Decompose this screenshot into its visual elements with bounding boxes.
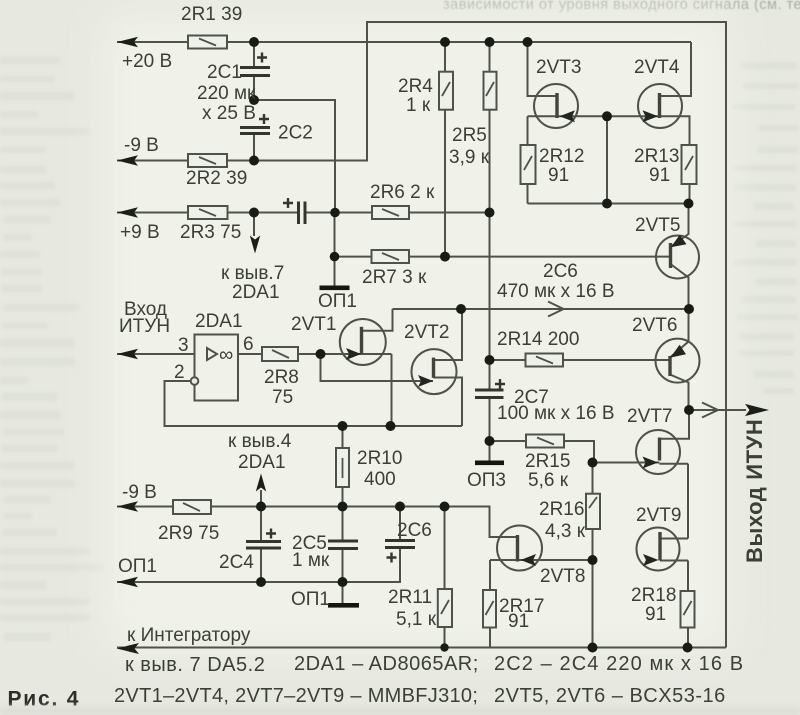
svg-text:2R1 39: 2R1 39 [181, 4, 242, 25]
svg-text:470 мк х 16 В: 470 мк х 16 В [497, 281, 615, 302]
svg-text:3,9 к: 3,9 к [449, 147, 490, 168]
svg-text:2VT4: 2VT4 [634, 57, 680, 78]
svg-text:4,3 к: 4,3 к [545, 521, 586, 542]
svg-text:ОП3: ОП3 [467, 470, 506, 491]
svg-text:2R8: 2R8 [264, 367, 299, 388]
svg-text:3: 3 [178, 335, 189, 356]
svg-text:100 мк х 16 В: 100 мк х 16 В [497, 403, 615, 424]
svg-text:5,1 к: 5,1 к [396, 609, 437, 630]
svg-text:х 25 В: х 25 В [202, 103, 256, 124]
svg-text:2R18: 2R18 [631, 585, 676, 606]
svg-text:2R9 75: 2R9 75 [158, 523, 219, 544]
svg-text:ОП1: ОП1 [291, 589, 330, 610]
svg-text:+20 В: +20 В [122, 51, 172, 72]
svg-text:2DA1: 2DA1 [232, 282, 280, 303]
svg-text:2VT1–2VT4, 2VT7–2VT9 – MMBFJ31: 2VT1–2VT4, 2VT7–2VT9 – MMBFJ310; [114, 685, 478, 707]
svg-text:2R15: 2R15 [525, 451, 570, 472]
svg-text:2VT5: 2VT5 [635, 215, 680, 236]
svg-text:2R5: 2R5 [452, 125, 487, 146]
svg-text:2DA1: 2DA1 [195, 311, 243, 332]
svg-text:400: 400 [364, 469, 396, 490]
svg-text:2VT2: 2VT2 [404, 322, 449, 343]
svg-text:2R14 200: 2R14 200 [497, 329, 579, 350]
svg-text:-9 В: -9 В [122, 482, 157, 503]
svg-text:ИТУН: ИТУН [119, 316, 170, 337]
svg-text:6: 6 [243, 334, 254, 355]
svg-text:2VT1: 2VT1 [291, 314, 336, 335]
svg-text:2R2 39: 2R2 39 [186, 168, 247, 189]
svg-text:2VT6: 2VT6 [632, 315, 677, 336]
svg-text:2R16: 2R16 [539, 499, 584, 520]
svg-text:91: 91 [645, 604, 666, 625]
svg-text:2VT9: 2VT9 [636, 505, 681, 526]
svg-text:2R6 2 к: 2R6 2 к [370, 182, 435, 203]
svg-text:91: 91 [508, 611, 529, 632]
svg-text:2VT3: 2VT3 [536, 57, 581, 78]
svg-text:2VT7: 2VT7 [627, 406, 672, 427]
svg-text:-9 В: -9 В [124, 135, 159, 156]
svg-text:2R13: 2R13 [634, 146, 679, 167]
svg-text:2DA1 – AD8065AR;: 2DA1 – AD8065AR; [294, 653, 479, 675]
svg-text:2C4: 2C4 [219, 552, 254, 573]
svg-text:к выв.4: к выв.4 [228, 431, 292, 452]
svg-text:1 мк: 1 мк [292, 550, 330, 571]
svg-text:1 к: 1 к [406, 95, 431, 116]
svg-text:2R3 75: 2R3 75 [180, 222, 241, 243]
svg-text:ОП1: ОП1 [318, 291, 357, 312]
svg-text:91: 91 [649, 165, 670, 186]
svg-text:2R4: 2R4 [398, 76, 433, 97]
svg-text:75: 75 [272, 387, 293, 408]
svg-text:2R7 3 к: 2R7 3 к [362, 267, 427, 288]
svg-text:2DA1: 2DA1 [238, 452, 286, 473]
svg-text:2C2 – 2C4 220 мк х 16 В: 2C2 – 2C4 220 мк х 16 В [494, 653, 744, 675]
svg-text:91: 91 [548, 165, 569, 186]
svg-text:2C1: 2C1 [207, 62, 242, 83]
svg-text:к выв. 7 DA5.2: к выв. 7 DA5.2 [125, 654, 265, 676]
svg-text:5,6 к: 5,6 к [528, 470, 569, 491]
svg-text:Выход ИТУН: Выход ИТУН [742, 419, 767, 563]
svg-text:к выв.7: к выв.7 [221, 263, 284, 284]
svg-text:ОП1: ОП1 [118, 556, 157, 577]
svg-text:2C6: 2C6 [397, 520, 432, 541]
svg-text:2C6: 2C6 [543, 261, 578, 282]
svg-text:+9 В: +9 В [120, 222, 160, 243]
svg-text:к Интегратору: к Интегратору [127, 625, 251, 646]
svg-text:∞: ∞ [219, 344, 233, 366]
svg-text:2R11: 2R11 [388, 587, 432, 608]
svg-text:2R12: 2R12 [539, 146, 584, 167]
svg-text:2: 2 [174, 362, 185, 383]
svg-text:2C2: 2C2 [278, 123, 313, 144]
svg-text:2VT8: 2VT8 [540, 566, 585, 587]
svg-text:2R10: 2R10 [357, 448, 402, 469]
svg-text:2VT5, 2VT6 – BCX53-16: 2VT5, 2VT6 – BCX53-16 [494, 685, 726, 707]
svg-text:220 мк: 220 мк [197, 83, 256, 104]
